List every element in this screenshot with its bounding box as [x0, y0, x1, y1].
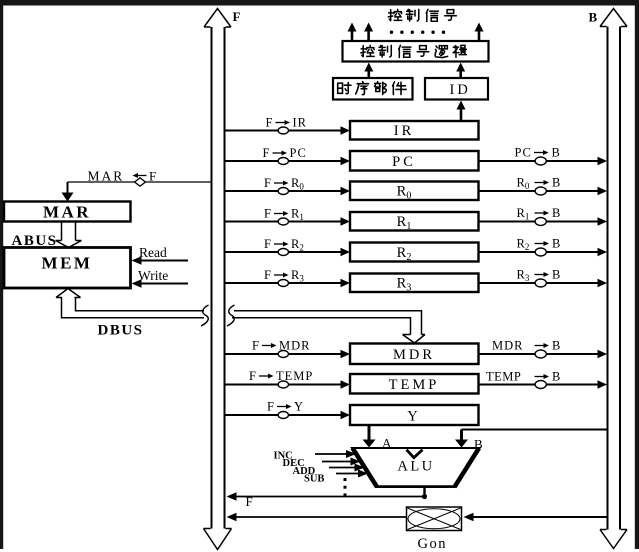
label R3→B [517, 268, 561, 284]
wire TEMP to B [479, 380, 608, 388]
label F→MDR [252, 339, 310, 353]
wire B bus to Gon [464, 513, 608, 521]
label R1→B [517, 206, 561, 222]
register R0 [350, 182, 479, 202]
register R1 [350, 212, 479, 232]
ABUS hollow arrow MAR to MEM [56, 222, 82, 248]
dotted continuation below SUB [344, 478, 347, 496]
multiplier Gon box [407, 507, 462, 531]
wire F to R1 [225, 217, 350, 225]
node diamond on MAR←F wire [135, 178, 146, 186]
svg-text:PC: PC [290, 146, 307, 160]
svg-text:Gon: Gon [418, 536, 447, 552]
box 时序部件 (timing unit) [333, 78, 413, 100]
register R3 [350, 274, 479, 294]
svg-text:Y: Y [407, 409, 420, 425]
svg-text:B: B [589, 10, 598, 25]
svg-text:MEM: MEM [42, 254, 93, 273]
wire F to R3 [225, 279, 350, 287]
wire Gon to F bus [227, 513, 407, 521]
arrow IR to ID [457, 101, 466, 122]
wire R3 to B [479, 279, 608, 287]
label F→PC [263, 146, 307, 160]
svg-text:TEMP: TEMP [486, 370, 521, 384]
wire Y to ALU input A [363, 425, 376, 448]
register PC [350, 151, 479, 171]
svg-text:ALU: ALU [397, 459, 434, 475]
arrow up from logic box (left) [348, 23, 357, 42]
label F→Y [267, 400, 303, 414]
svg-text:SUB: SUB [304, 474, 324, 485]
wire R2 to B [479, 248, 608, 256]
svg-text:PC: PC [392, 154, 416, 170]
DBUS double line to MDR [232, 311, 425, 343]
bus F top arrowhead [204, 9, 231, 28]
ALU trapezoid [352, 448, 480, 487]
label F→R3 [264, 268, 304, 284]
arrow up from logic box (right) [475, 23, 484, 42]
svg-text:B: B [552, 339, 560, 353]
wire F to MDR [225, 350, 350, 358]
svg-text:F: F [252, 339, 259, 353]
wire F to IR [225, 126, 350, 134]
label MAR←F [88, 169, 157, 184]
svg-text:F: F [149, 169, 156, 184]
wire ALU output down [423, 487, 425, 497]
wire F to TEMP [225, 380, 350, 388]
svg-text:B: B [552, 146, 560, 160]
svg-text:IR: IR [394, 123, 415, 139]
svg-text:F: F [263, 146, 270, 160]
wire F to Y [225, 411, 350, 419]
wire R0 to B [479, 187, 608, 195]
frame: top black bar [0, 0, 639, 6]
label F→TEMP [249, 369, 313, 383]
frame: right black bar [635, 5, 639, 549]
arrow ID to logic box [456, 63, 465, 79]
svg-text:F: F [267, 400, 274, 414]
bus B vertical double-line [608, 27, 621, 530]
wire MDR to B [479, 350, 608, 358]
wire B bus to ALU input B [455, 430, 607, 448]
svg-text:MDR: MDR [492, 339, 523, 353]
wire F return line to F bus [227, 492, 425, 500]
svg-text:F: F [249, 369, 256, 383]
svg-text:F: F [233, 9, 241, 24]
svg-text:F: F [246, 494, 253, 509]
svg-text:B: B [552, 268, 560, 282]
register TEMP [350, 374, 479, 394]
label PC→B [515, 146, 560, 160]
svg-text:MAR: MAR [88, 169, 125, 184]
box 控制信号逻辑 (control signal logic) [343, 41, 489, 62]
DBUS squiggle left of F bus [201, 305, 209, 326]
svg-text:F: F [264, 268, 271, 282]
svg-text:B: B [552, 237, 560, 251]
register R2 [350, 243, 479, 264]
svg-text:Write: Write [138, 268, 168, 283]
bus B top arrowhead [600, 9, 627, 27]
register MAR [4, 202, 131, 222]
svg-text:IR: IR [293, 116, 308, 130]
svg-text:MDR: MDR [279, 339, 310, 353]
label F→R1 [264, 207, 304, 223]
register Y [350, 405, 479, 425]
DBUS squiggle right of F bus [227, 305, 235, 326]
svg-text:TEMP: TEMP [389, 377, 440, 393]
wire ADD to ALU [329, 464, 365, 472]
box ID [425, 78, 488, 100]
wire SUB to ALU [336, 470, 368, 478]
wire R1 to B [479, 217, 608, 225]
label 控制信号 (control signals) [388, 9, 456, 21]
bus F vertical double-line [212, 27, 225, 529]
svg-text:F: F [264, 176, 271, 190]
frame: left black bar [0, 5, 3, 549]
wire F to R2 [225, 248, 350, 256]
svg-text:ID: ID [450, 82, 471, 98]
wire F to PC [225, 157, 350, 165]
bus B bottom arrowhead [600, 530, 627, 549]
label F→IR [266, 116, 308, 130]
DBUS hollow arrow up into MEM [56, 289, 204, 318]
arrow up from logic box (mid) [364, 23, 373, 42]
svg-text:B: B [552, 370, 560, 384]
label MDR→B [492, 339, 560, 353]
wire PC to B [479, 157, 608, 165]
svg-text:F: F [264, 237, 271, 251]
memory MEM [4, 248, 131, 289]
wire Write into MEM [132, 279, 189, 287]
ellipsis dots under 控制信号 [390, 31, 445, 34]
wire MAR←F from F bus [62, 182, 211, 202]
svg-text:F: F [264, 207, 271, 221]
svg-text:MDR: MDR [393, 347, 435, 363]
label F→R2 [264, 237, 304, 253]
label F→R0 [264, 176, 304, 192]
label R2→B [517, 237, 561, 253]
arrow 时序部件 to logic box [364, 63, 373, 79]
wire INC to ALU [315, 450, 356, 458]
register IR [350, 121, 479, 140]
svg-text:Y: Y [294, 400, 303, 414]
svg-text:Read: Read [139, 245, 167, 260]
svg-text:F: F [266, 116, 273, 130]
svg-text:B: B [552, 176, 560, 190]
wire DEC to ALU [322, 458, 361, 466]
svg-text:DBUS: DBUS [98, 323, 144, 339]
wire F to R0 [225, 187, 350, 195]
svg-text:MAR: MAR [43, 203, 91, 222]
register MDR [350, 344, 479, 365]
svg-text:PC: PC [515, 146, 532, 160]
bus F bottom arrowhead [204, 529, 232, 550]
svg-text:B: B [552, 206, 560, 220]
svg-text:TEMP: TEMP [276, 369, 313, 383]
wire Read into MEM [132, 256, 189, 264]
junction dot ALU output / F line [422, 494, 427, 499]
label R0→B [517, 176, 561, 192]
label TEMP→B [486, 370, 560, 384]
